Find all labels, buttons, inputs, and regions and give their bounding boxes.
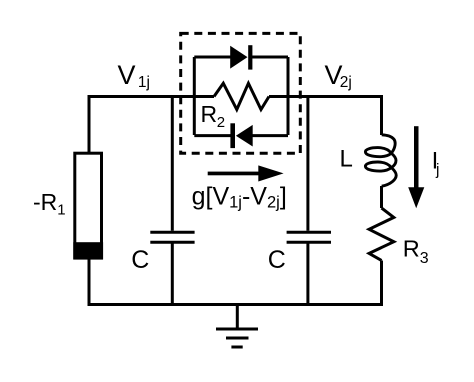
- diode block top edge wires: [194, 56, 288, 59]
- diode D2 (bottom, pointing left): [230, 123, 252, 148]
- capacitor C right plates: [287, 232, 331, 242]
- wire top rail right portion: [269, 95, 382, 98]
- resistor R2 zigzag: [214, 83, 269, 109]
- wire right capacitor branch lower: [306, 244, 309, 305]
- current arrow Ij: [408, 126, 424, 208]
- ground symbol: [236, 305, 239, 330]
- diode D1 (top, pointing right): [230, 45, 252, 69]
- svg-text:R: R: [201, 101, 218, 127]
- svg-text:1j: 1j: [138, 74, 150, 91]
- diode block bottom edge wires: [194, 134, 288, 137]
- svg-text:1: 1: [57, 202, 65, 219]
- wire left capacitor branch lower: [171, 244, 174, 305]
- resistor R3 zigzag: [369, 208, 394, 261]
- coupling arrow g: [208, 165, 284, 181]
- svg-text:2: 2: [217, 114, 225, 131]
- svg-text:2j: 2j: [340, 74, 352, 91]
- negative resistor -R1 body: [73, 153, 103, 259]
- svg-text:-R: -R: [33, 189, 57, 215]
- capacitor C left plates: [150, 232, 194, 242]
- wire left vertical lower: [88, 258, 91, 306]
- svg-text:R: R: [403, 236, 420, 262]
- wire left vertical upper: [88, 95, 91, 153]
- svg-text:L: L: [340, 146, 353, 173]
- wire right vertical upper: [380, 95, 383, 135]
- svg-text:3: 3: [420, 250, 429, 267]
- wire bottom rail: [88, 303, 384, 306]
- svg-text:C: C: [268, 246, 286, 274]
- svg-text:j: j: [435, 162, 439, 179]
- wire right vertical middle (between L and R3): [380, 186, 383, 208]
- diode block rectangle sides: [194, 57, 288, 135]
- inductor L coil: [365, 135, 396, 186]
- wire right capacitor branch upper: [306, 97, 309, 231]
- wire top rail from V1j corner to V2j corner (with R2 zigzag inline): [89, 95, 214, 98]
- svg-text:C: C: [131, 246, 149, 274]
- wire right vertical lower: [380, 261, 383, 307]
- svg-text:V: V: [118, 60, 136, 90]
- dashed coupling box: [181, 33, 301, 153]
- wire left capacitor branch upper: [171, 97, 174, 231]
